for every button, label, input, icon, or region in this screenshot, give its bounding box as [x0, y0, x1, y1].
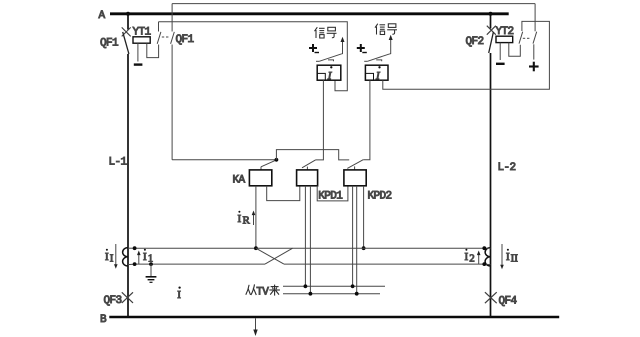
aux contact QF2-1	[519, 32, 523, 44]
junction bus A / L-2	[489, 12, 493, 16]
CT circuit bottom wire left	[135, 263, 265, 265]
wire from QF1 aux to KA contact (y=159.8)	[172, 159, 276, 161]
wire crossing diagonal 2	[265, 248, 293, 264]
YT1 left lead to minus	[137, 43, 139, 61]
relay KPD1 contact	[306, 167, 308, 170]
relay KPD1 box	[297, 170, 318, 186]
signal 1 contact blade	[316, 60, 320, 62]
mechanical linkage dashes	[523, 37, 530, 39]
wire YT2 right lead loop to aux contact	[509, 43, 521, 57]
junction KPD2 / TV top line	[351, 284, 355, 288]
svg-text:QF4: QF4	[499, 296, 518, 308]
TV top line	[283, 285, 385, 287]
wire crossing diagonal 1	[256, 248, 284, 264]
YT2 left lead to minus	[499, 43, 501, 60]
svg-text:QF3: QF3	[104, 295, 122, 307]
CT circuit top wire	[135, 247, 485, 249]
aux contact QF1-2	[171, 4, 173, 32]
signal relay 2 bottom-right lead loop to YT2 aux	[383, 21, 550, 89]
svg-text:II: II	[511, 253, 519, 265]
label 信号 1	[315, 27, 337, 38]
mechanical linkage dashes	[162, 36, 169, 38]
current transformer CT1	[123, 248, 128, 266]
outgoing feeder arrow below bus B	[255, 318, 257, 330]
relay KPD2 contact	[354, 166, 356, 170]
svg-text:QF1: QF1	[100, 38, 119, 50]
aux contact QF2-2	[534, 4, 536, 32]
label I-1 with up arrow	[138, 254, 140, 265]
relay KA box	[249, 170, 271, 186]
breaker QF4 cross	[485, 292, 497, 303]
ground	[149, 262, 153, 266]
label I-II with down arrow	[501, 244, 503, 266]
plus terminal signal 1	[309, 44, 317, 52]
wire KPD2 lead to TV bottom line	[356, 186, 358, 294]
svg-text:I: I	[465, 251, 469, 263]
svg-text:I: I	[177, 289, 181, 301]
minus terminal YT2	[496, 63, 505, 65]
bus B	[109, 316, 559, 318]
svg-text:KPD2: KPD2	[368, 191, 392, 203]
wire YT1 right lead loop to aux contact	[147, 43, 159, 57]
plus terminal signal 2	[357, 44, 365, 52]
wire KPD2 right lead down to CT wire	[363, 186, 365, 248]
svg-text:I: I	[105, 251, 109, 263]
CT circuit bottom wire right	[284, 263, 484, 265]
node junction KPD2 / CT wire	[362, 246, 366, 250]
junction bus A / L-1	[126, 12, 130, 16]
relay KPD2 box	[344, 170, 366, 186]
wire KPD1 right lead loop to KPD2	[317, 186, 348, 201]
svg-text:QF2: QF2	[466, 36, 484, 48]
label 从TV来	[246, 284, 280, 295]
current transformer CT2	[485, 248, 490, 266]
signal 2 arrow to 信号	[390, 39, 392, 54]
junction KPD1 / TV top line	[304, 284, 308, 288]
svg-text:QF1: QF1	[176, 34, 195, 46]
breaker QF3 cross	[122, 292, 133, 303]
wire link (y=21.8) QF1 aux to signal relay 1	[159, 22, 348, 91]
relay KA contact	[260, 167, 262, 170]
svg-text:2: 2	[469, 253, 475, 265]
signal relay 1 box (I)	[317, 65, 341, 80]
bus A	[110, 12, 509, 15]
signal relay 2 bottom-left lead down to KPD2 contact	[363, 80, 370, 160]
wire KA right lead loop to KPD1	[267, 186, 300, 201]
svg-text:I: I	[143, 251, 147, 263]
minus terminal YT1	[134, 63, 143, 65]
svg-text:I: I	[506, 251, 510, 263]
plus terminal QF2 circuit	[529, 62, 539, 72]
signal relay 1 bottom-left lead down to KPD1 contact	[316, 80, 324, 160]
svg-text:B: B	[100, 314, 107, 326]
aux contact QF1-1	[158, 22, 160, 32]
svg-text:KA: KA	[233, 175, 246, 187]
svg-text:TV: TV	[256, 286, 269, 298]
feeder L-1 vertical	[127, 14, 129, 317]
svg-text:L-2: L-2	[498, 162, 516, 174]
signal 1 arrow to 信号	[342, 41, 344, 54]
label 信号 2	[375, 24, 397, 35]
breaker QF1 (cross + blade)	[122, 27, 131, 36]
svg-text:R: R	[243, 215, 251, 227]
signal relay 2 box (I)	[365, 65, 388, 80]
breaker QF2 (cross + blade)	[487, 26, 496, 35]
svg-text:A: A	[99, 10, 106, 22]
node junction KA / CT wire	[254, 246, 258, 250]
wire KA left lead down to CT wire	[255, 186, 257, 248]
wire over KPD contacts (y=149.6)	[276, 150, 349, 160]
wire top link (y=3.6) to YT2 circuit	[172, 3, 535, 5]
signal 2 contact blade	[364, 60, 368, 62]
junction KPD1 / TV bottom line	[309, 292, 313, 296]
svg-text:L-1: L-1	[109, 157, 128, 169]
svg-text:I: I	[110, 253, 114, 265]
wire KPD1 lead to TV top line	[304, 186, 306, 286]
wire KPD1 lead to TV bottom line	[309, 186, 311, 294]
wire KPD2 lead to TV top line	[352, 186, 354, 286]
junction KPD2 / TV bottom line	[355, 292, 359, 296]
svg-text:I: I	[238, 213, 242, 225]
node junction KA contact	[275, 158, 279, 162]
TV bottom line	[283, 293, 380, 295]
feeder L-2 vertical	[490, 14, 492, 317]
